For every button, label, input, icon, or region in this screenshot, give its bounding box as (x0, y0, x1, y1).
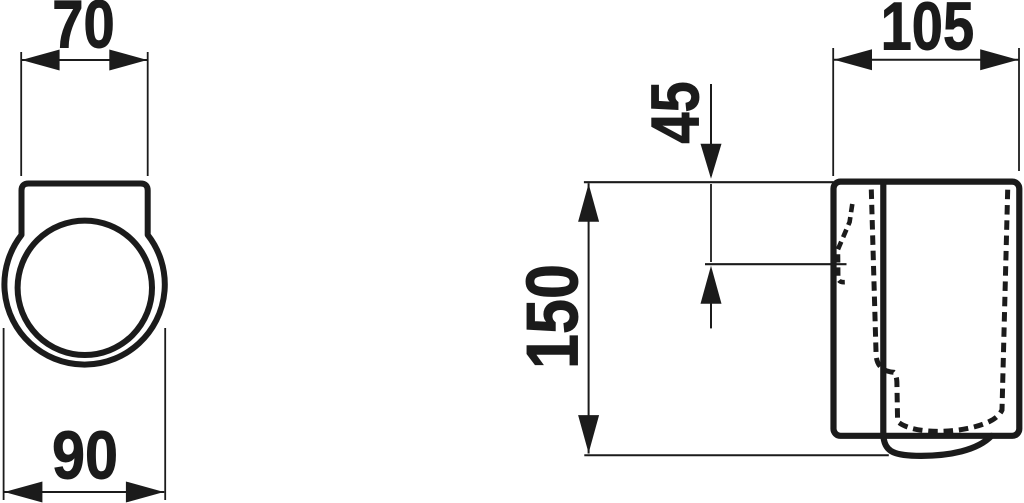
svg-text:150: 150 (513, 264, 594, 369)
svg-text:105: 105 (881, 0, 975, 65)
svg-text:45: 45 (638, 81, 714, 144)
svg-text:90: 90 (52, 418, 118, 494)
svg-text:70: 70 (52, 0, 115, 63)
